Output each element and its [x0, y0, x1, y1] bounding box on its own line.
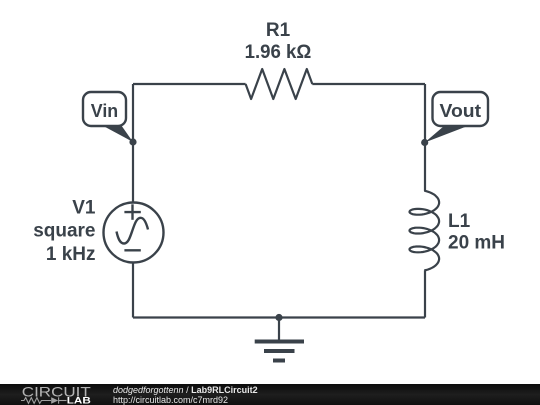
wire left upper: Vin node to V1 — [132, 84, 134, 202]
svg-text:L1: L1 — [448, 211, 471, 232]
wire left lower: V1 to bottom — [132, 263, 134, 318]
minus sign — [124, 249, 140, 251]
junction dot ground node — [275, 314, 282, 321]
svg-text:V1: V1 — [72, 198, 96, 219]
svg-text:Vout: Vout — [440, 100, 482, 121]
wire right upper: Vout node to L1 — [424, 84, 426, 191]
svg-text:square: square — [33, 221, 95, 242]
ground — [255, 318, 304, 361]
footer bar — [0, 384, 540, 405]
wire top left segment — [133, 83, 246, 85]
logo schematic: wire-resistor-diode — [21, 397, 67, 403]
svg-text:http://circuitlab.com/c7mrd92: http://circuitlab.com/c7mrd92 — [113, 395, 228, 405]
voltage source V1 — [104, 203, 164, 263]
svg-text:1.96 kΩ: 1.96 kΩ — [245, 42, 312, 63]
svg-text:Vin: Vin — [91, 100, 118, 121]
svg-text:1 kHz: 1 kHz — [46, 244, 96, 265]
svg-text:LAB: LAB — [67, 395, 92, 405]
wire top right segment — [312, 83, 425, 85]
wire right lower: L1 to bottom — [424, 270, 426, 317]
inductor L1 coil — [410, 191, 440, 271]
plus sign — [124, 211, 140, 213]
wire bottom segment — [133, 316, 425, 318]
svg-text:R1: R1 — [266, 20, 291, 41]
node Vin flag — [83, 92, 137, 146]
node Vout flag — [421, 92, 488, 146]
svg-text:dodgedforgottenn / Lab9RLCircu: dodgedforgottenn / Lab9RLCircuit2 — [113, 385, 258, 395]
sine wave — [117, 218, 149, 244]
resistor R1 — [246, 69, 313, 99]
svg-text:20 mH: 20 mH — [448, 233, 505, 254]
